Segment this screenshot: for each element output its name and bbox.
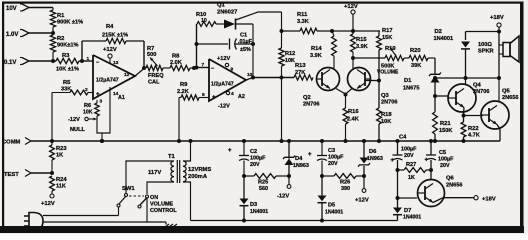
- svg-text:R19: R19: [385, 46, 396, 52]
- svg-text:R24: R24: [56, 177, 67, 183]
- svg-text:39K: 39K: [411, 63, 421, 69]
- svg-text:D1: D1: [404, 78, 412, 84]
- potentiometer R7 FREQ CAL: [146, 46, 164, 86]
- svg-text:C2: C2: [250, 149, 257, 155]
- svg-text:R1: R1: [57, 13, 65, 19]
- svg-text:C5: C5: [439, 150, 446, 156]
- switch SW1: [117, 186, 177, 214]
- +12V bottom-left terminal: [41, 194, 55, 207]
- svg-text:R12: R12: [285, 51, 295, 57]
- svg-text:10K: 10K: [381, 119, 391, 125]
- svg-text:+12V: +12V: [41, 201, 55, 207]
- svg-text:R22: R22: [468, 126, 479, 132]
- svg-text:20V: 20V: [328, 161, 338, 167]
- svg-text:215K ±1%: 215K ±1%: [102, 33, 128, 39]
- null pot -12V: [68, 117, 97, 133]
- svg-text:390: 390: [341, 186, 350, 192]
- A2 +12V pin 9: [217, 56, 234, 73]
- svg-text:R6: R6: [84, 103, 91, 109]
- svg-text:1K: 1K: [56, 153, 63, 159]
- wire C1/Q1 to A2 out: [251, 24, 255, 78]
- svg-text:R11: R11: [297, 12, 308, 18]
- wire R9 to comm: [178, 98, 180, 142]
- wire 10V to bus: [29, 7, 53, 9]
- svg-text:R3: R3: [62, 53, 70, 59]
- svg-text:100µF: 100µF: [401, 147, 417, 153]
- svg-text:D7: D7: [404, 208, 411, 214]
- wire rail 12v: [317, 30, 380, 32]
- svg-text:15K: 15K: [382, 35, 392, 41]
- resistor R13: [294, 63, 313, 80]
- svg-text:0.1V: 0.1V: [4, 60, 16, 66]
- resistor R23: [50, 141, 68, 173]
- svg-text:VOLUME: VOLUME: [150, 202, 173, 208]
- wire to Q4 base: [435, 95, 448, 97]
- node D1 out: [433, 94, 437, 98]
- resistor R10: [196, 12, 216, 26]
- svg-text:Q1: Q1: [217, 3, 226, 9]
- input terminal 10V: [6, 4, 29, 12]
- node R14 top: [330, 29, 334, 33]
- svg-text:Q3: Q3: [381, 93, 390, 99]
- svg-text:D6: D6: [369, 149, 377, 155]
- svg-text:+12V: +12V: [217, 56, 230, 62]
- zener D1 1N675: [403, 58, 441, 96]
- svg-text:R21: R21: [440, 121, 451, 127]
- svg-text:R25: R25: [258, 180, 268, 186]
- svg-text:7: 7: [202, 62, 205, 68]
- svg-text:R18: R18: [381, 112, 392, 118]
- resistor R15: [351, 31, 368, 58]
- svg-text:1N963: 1N963: [367, 156, 383, 162]
- svg-text:+18V: +18V: [482, 196, 496, 202]
- svg-text:A1: A1: [118, 95, 125, 101]
- wire 18v to D2: [466, 31, 500, 33]
- wire left feedback leg: [196, 24, 198, 68]
- svg-text:−: −: [96, 60, 99, 66]
- svg-text:200mA: 200mA: [188, 174, 208, 180]
- svg-text:A2: A2: [238, 94, 245, 100]
- svg-text:R5: R5: [63, 80, 71, 86]
- svg-text:6: 6: [202, 92, 205, 98]
- svg-text:1N4001: 1N4001: [403, 215, 421, 221]
- wire feedback left leg: [81, 41, 83, 61]
- comm rail: [52, 140, 500, 142]
- svg-text:+: +: [212, 95, 216, 101]
- svg-text:Q5: Q5: [502, 89, 511, 95]
- resistor R6: [83, 99, 103, 117]
- -12V terminal: [277, 174, 291, 200]
- node A2 output: [246, 76, 255, 81]
- transistor Q5: [481, 78, 518, 129]
- rail junction dots: [50, 139, 466, 143]
- wire primary top: [126, 161, 174, 193]
- svg-text:1/2µA747: 1/2µA747: [96, 78, 119, 84]
- wire 281 to comm: [281, 78, 283, 142]
- svg-text:2N656: 2N656: [446, 183, 462, 189]
- svg-text:20V: 20V: [440, 163, 450, 169]
- capacitor C3: [308, 141, 344, 176]
- svg-text:1N4001: 1N4001: [325, 210, 343, 216]
- svg-text:R26: R26: [340, 180, 350, 186]
- svg-text:FREQ: FREQ: [148, 73, 164, 79]
- svg-text:−: −: [211, 66, 214, 72]
- svg-text:9: 9: [231, 67, 234, 73]
- wire Q4 emitter to Q5 base: [462, 108, 484, 118]
- svg-text:SW1: SW1: [122, 186, 135, 192]
- resistor R3: [56, 53, 79, 73]
- svg-text:VOLUME: VOLUME: [377, 70, 399, 76]
- svg-text:-12V: -12V: [68, 117, 80, 123]
- potentiometer R19 VOLUME: [377, 46, 404, 76]
- wire 0.1V: [29, 52, 56, 61]
- node Q3 base: [365, 79, 381, 83]
- svg-text:+: +: [308, 152, 312, 158]
- input terminal COMM: [2, 138, 52, 146]
- resistor R2: [50, 27, 78, 52]
- wire Q5 emitter: [497, 125, 500, 142]
- node C3-R26: [320, 174, 324, 178]
- wire output to R4: [143, 41, 145, 68]
- svg-text:+18V: +18V: [490, 15, 504, 21]
- svg-text:4: 4: [231, 91, 234, 97]
- +12V bottom terminal: [355, 174, 369, 204]
- resistor R24: [50, 176, 68, 194]
- svg-text:C3: C3: [328, 148, 335, 154]
- svg-text:R17: R17: [382, 28, 393, 34]
- svg-text:12: 12: [124, 72, 130, 78]
- resistor R25: [244, 174, 289, 192]
- svg-text:20V: 20V: [404, 153, 414, 159]
- svg-text:2N706: 2N706: [381, 100, 397, 106]
- diode D2 1N4001: [434, 29, 471, 78]
- wire sw1 right down: [146, 198, 148, 222]
- svg-text:Q2: Q2: [303, 95, 311, 101]
- resistor R26: [322, 174, 364, 192]
- svg-text:2.4K: 2.4K: [347, 117, 359, 123]
- AC cord top: [43, 207, 119, 216]
- resistor R9: [177, 82, 209, 100]
- diode D7 1N4001: [393, 198, 421, 221]
- speaker 100ohm: [478, 32, 519, 79]
- svg-text:C1: C1: [240, 33, 247, 39]
- svg-text:500: 500: [147, 52, 156, 58]
- svg-text:R9: R9: [180, 82, 188, 88]
- svg-text:-12V: -12V: [218, 104, 230, 110]
- wire emitters join: [336, 89, 352, 97]
- node Q6 base: [396, 196, 400, 200]
- capacitor C5: [425, 141, 455, 172]
- svg-text:TEST: TEST: [4, 172, 19, 178]
- node speaker line tap: [433, 76, 437, 80]
- svg-text:10: 10: [201, 18, 207, 24]
- AC plug: [24, 213, 43, 231]
- A2 -12V pin 4: [218, 91, 234, 110]
- node A1 inverting input: [80, 59, 84, 63]
- svg-text:1: 1: [87, 56, 90, 62]
- svg-text:R13: R13: [295, 63, 306, 69]
- resistor R1: [50, 8, 83, 28]
- op-amp A2: [202, 59, 253, 101]
- svg-text:33K: 33K: [61, 87, 71, 93]
- diode D3 1N4001: [240, 176, 269, 223]
- wire primary bottom: [147, 182, 174, 194]
- resistor R17: [377, 28, 393, 81]
- svg-text:NULL: NULL: [70, 127, 85, 133]
- node R15-collector: [351, 56, 355, 60]
- resistor R14: [310, 31, 336, 59]
- svg-text:+12V: +12V: [344, 4, 358, 10]
- +12V top terminal: [344, 4, 358, 31]
- node Q5 collector: [497, 76, 501, 80]
- wire pin7 node: [195, 66, 210, 70]
- transistor Q3: [348, 58, 398, 106]
- wire Q6 collector: [430, 170, 432, 180]
- svg-text:2N656: 2N656: [502, 95, 518, 101]
- svg-text:R20: R20: [410, 48, 421, 54]
- svg-text:+: +: [391, 158, 395, 164]
- svg-text:-12V: -12V: [277, 194, 289, 200]
- resistor R21: [433, 96, 453, 141]
- node x281: [280, 76, 284, 80]
- transistor Q4: [448, 78, 489, 112]
- svg-text:1N4001: 1N4001: [434, 36, 454, 42]
- svg-text:1/2µA747: 1/2µA747: [211, 82, 234, 88]
- svg-text:2N706: 2N706: [303, 102, 319, 108]
- input terminal 1.0V: [6, 30, 29, 39]
- svg-text:R4: R4: [106, 24, 114, 30]
- wire schmitt out: [353, 57, 385, 59]
- svg-text:1.0V: 1.0V: [6, 32, 18, 38]
- svg-text:100µF: 100µF: [250, 156, 266, 162]
- wire A1 output: [135, 69, 144, 77]
- svg-text:3.9K: 3.9K: [310, 53, 322, 59]
- svg-text:+: +: [96, 92, 100, 98]
- input terminal TEST: [4, 170, 54, 179]
- svg-text:R14: R14: [311, 46, 322, 52]
- capacitor C2: [228, 141, 266, 176]
- resistor R11: [283, 12, 317, 34]
- node bus-0.1V: [51, 59, 55, 63]
- svg-text:10K: 10K: [83, 110, 93, 116]
- svg-text:+12V: +12V: [355, 198, 369, 204]
- wire Q6 base: [398, 197, 418, 199]
- wire 1.0V to bus: [29, 32, 53, 34]
- diode D5 1N4001: [318, 176, 344, 223]
- A1 +12V pin 13: [103, 47, 119, 66]
- svg-text:T1: T1: [168, 154, 176, 160]
- wire null network: [97, 87, 110, 133]
- wire Q1 cathode: [236, 23, 254, 25]
- svg-text:27K: 27K: [295, 70, 305, 76]
- node A1 output: [142, 66, 146, 70]
- PUT Q1 2N6027: [216, 3, 237, 30]
- svg-text:10V: 10V: [6, 6, 17, 12]
- svg-text:+: +: [425, 158, 429, 164]
- svg-text:3: 3: [100, 99, 103, 105]
- svg-text:100µF: 100µF: [328, 155, 344, 161]
- svg-text:1K: 1K: [408, 175, 415, 181]
- svg-text:12VRMS: 12VRMS: [188, 167, 211, 173]
- resistor R18: [377, 81, 393, 142]
- svg-text:3.3K: 3.3K: [297, 19, 309, 25]
- resistor R16: [343, 95, 359, 142]
- node +12v rail: [351, 29, 355, 33]
- svg-text:D2: D2: [435, 29, 442, 35]
- svg-text:R8: R8: [172, 54, 180, 60]
- svg-text:SPKR: SPKR: [478, 49, 494, 55]
- svg-text:90K±1%: 90K±1%: [57, 43, 78, 49]
- svg-text:2N6027: 2N6027: [217, 10, 237, 16]
- svg-text:R23: R23: [56, 146, 67, 152]
- svg-text:13: 13: [113, 60, 119, 66]
- svg-text:10K ±1%: 10K ±1%: [56, 67, 79, 73]
- node C2-R25: [242, 174, 246, 178]
- svg-text:3.9K: 3.9K: [356, 44, 368, 50]
- svg-text:R27: R27: [406, 162, 416, 168]
- svg-text:2N706: 2N706: [473, 89, 489, 95]
- resistor R12: [279, 31, 295, 78]
- zener D4 1N963: [283, 141, 309, 176]
- svg-text:100µF: 100µF: [438, 157, 454, 163]
- resistor R22: [461, 116, 480, 142]
- svg-text:100Ω: 100Ω: [478, 42, 492, 48]
- capacitor C4: [391, 135, 418, 171]
- svg-text:R16: R16: [348, 109, 359, 115]
- svg-text:1N675: 1N675: [403, 86, 419, 92]
- svg-text:1N963: 1N963: [293, 163, 309, 169]
- node null-comm: [100, 133, 104, 143]
- wire A2 out to R13: [253, 77, 294, 79]
- svg-text:C4: C4: [399, 135, 407, 141]
- svg-text:R2: R2: [57, 36, 64, 42]
- wire R5 leg: [52, 80, 93, 141]
- wire C4 down: [397, 170, 399, 198]
- transformer T1: [148, 154, 211, 183]
- svg-text:20V: 20V: [250, 162, 260, 168]
- node Q4 collector: [464, 76, 468, 80]
- AC cord bottom: [43, 221, 166, 223]
- capacitor C1: [195, 33, 254, 54]
- wire secondary top: [183, 141, 191, 161]
- svg-text:COMM: COMM: [2, 140, 21, 146]
- node C4-R27: [396, 168, 400, 172]
- svg-text:D5: D5: [328, 203, 335, 209]
- node bus-1V: [51, 31, 55, 35]
- transistor Q6: [418, 176, 463, 207]
- +18V top terminal: [490, 15, 504, 34]
- node R8-pin7: [190, 66, 197, 70]
- svg-text:1N4001: 1N4001: [250, 209, 268, 215]
- svg-text:+12V: +12V: [103, 47, 117, 53]
- transistor Q2: [303, 56, 340, 108]
- wire Q1 gate: [236, 12, 282, 20]
- resistor R20: [404, 48, 435, 69]
- svg-text:+: +: [228, 148, 232, 154]
- svg-text:±5%: ±5%: [240, 47, 251, 53]
- wire speaker line: [435, 77, 499, 79]
- wire secondary bottom: [183, 182, 191, 221]
- wire vertical 281: [281, 12, 283, 31]
- svg-text:D4: D4: [295, 156, 303, 162]
- svg-text:11K: 11K: [56, 184, 66, 190]
- resistor R8: [163, 54, 190, 71]
- svg-text:117V: 117V: [148, 170, 161, 176]
- resistor R27: [398, 162, 432, 181]
- svg-text:D3: D3: [250, 202, 257, 208]
- svg-text:CAL: CAL: [148, 80, 160, 86]
- svg-text:560: 560: [259, 186, 268, 192]
- svg-text:10K: 10K: [285, 58, 295, 64]
- svg-text:150K: 150K: [439, 128, 452, 134]
- svg-text:.01µF: .01µF: [238, 39, 253, 45]
- svg-text:2.2K: 2.2K: [177, 89, 189, 95]
- input terminal 0.1V: [4, 58, 29, 67]
- svg-text:4.7K: 4.7K: [468, 133, 480, 139]
- svg-text:ON: ON: [150, 195, 158, 201]
- svg-text:R15: R15: [356, 37, 367, 43]
- op-amp A1: [85, 55, 135, 101]
- zener D6 1N963: [358, 141, 383, 176]
- svg-text:Q4: Q4: [473, 83, 482, 89]
- wire R3 to A1 pin1: [79, 60, 93, 62]
- svg-text:Q6: Q6: [446, 176, 455, 182]
- bottom bus: [191, 220, 398, 222]
- svg-text:900K ±1%: 900K ±1%: [57, 20, 83, 26]
- svg-text:2.0K: 2.0K: [170, 60, 182, 66]
- node 281 rail: [280, 29, 284, 33]
- svg-text:CONTROL: CONTROL: [150, 208, 177, 214]
- chassis ground: [161, 222, 177, 230]
- resistor R4: [82, 24, 144, 44]
- +18V output terminal: [433, 196, 496, 203]
